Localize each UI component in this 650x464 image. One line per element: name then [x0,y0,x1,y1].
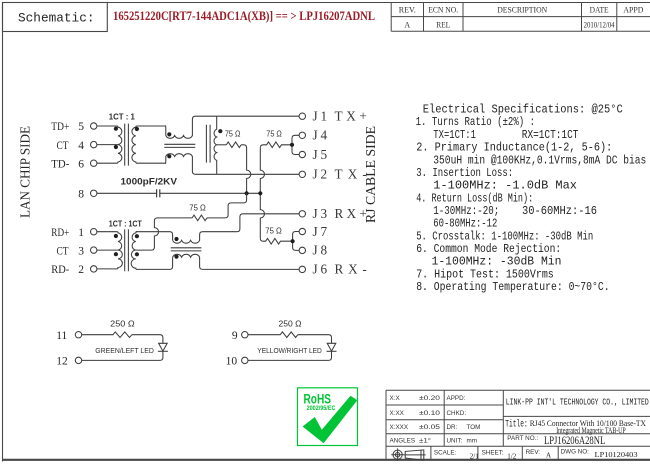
polarity dot T3 primary bottom [114,252,118,256]
svg-text:5: 5 [78,121,84,133]
svg-text:TX-: TX- [335,167,367,182]
svg-text:ANGLES: ANGLES [390,438,416,445]
svg-text:TD-: TD- [51,158,69,170]
svg-text:J3: J3 [313,206,328,221]
wire choke to J3 riser [203,214,300,232]
wire pin3 center tap [97,249,118,251]
wire T3 center tap to 75ohm with hop [136,218,192,250]
svg-text:DESCRIPTION: DESCRIPTION [497,6,547,15]
svg-text:2: 2 [78,264,84,276]
pin 1 circle [91,229,97,235]
svg-text:9: 9 [232,330,238,342]
pin 11 circle [75,332,81,338]
svg-text:APPD:: APPD: [447,395,466,402]
svg-text:75 Ω: 75 Ω [266,129,282,138]
svg-text:X:XX: X:XX [390,410,405,417]
svg-text:J4: J4 [313,128,328,143]
pin 2 circle [91,266,97,272]
wire J4/J5 vertical with hops [260,148,264,238]
wire to LED1 [132,335,163,344]
common mode choke CM2 top winding [173,232,203,243]
svg-text:CT: CT [57,245,69,257]
svg-text:DATE: DATE [590,6,609,15]
polarity dot T1 primary top [114,127,118,131]
svg-text:ECN NO.: ECN NO. [428,6,458,15]
pin 8 circle [91,190,97,196]
pin 4 circle [91,141,97,147]
svg-text:Schematic:: Schematic: [18,11,95,26]
svg-text:250 Ω: 250 Ω [279,319,302,329]
wire J2 bottom rail [195,173,299,175]
common mode choke CM1 core [164,144,195,147]
svg-text:12: 12 [56,356,68,368]
wire T3 secondary bottom to choke [137,257,173,269]
pin 6 circle [91,160,97,166]
svg-text:±0.20: ±0.20 [419,395,441,402]
svg-text:75 Ω: 75 Ω [189,204,206,213]
svg-text:1: 1 [78,227,84,239]
pin J1 circle [299,113,305,119]
revision row A [404,20,614,29]
resistor R 250ohm green [82,332,132,338]
svg-text:TX+: TX+ [335,108,367,123]
wire LED1 to pin 12 [82,351,163,360]
junction dot J7J8 [291,239,295,243]
pin 12 circle [75,357,81,363]
capacitor C 1000pF plates [157,189,160,197]
pin 5 circle [91,123,97,129]
svg-text:10: 10 [226,356,238,368]
pin 3 circle [91,247,97,253]
svg-text:Integrated Magnetic TAB-UP: Integrated Magnetic TAB-UP [556,426,626,435]
wire T2 center tap [217,144,227,146]
transformer T3 secondary winding [131,232,137,270]
svg-text:A: A [404,20,410,29]
common mode choke CM1 bottom winding [165,154,195,175]
transformer T3 primary winding [97,232,122,269]
svg-text:J6: J6 [313,262,328,277]
J7/J8 bracket [293,232,300,251]
svg-text:11: 11 [56,330,67,342]
svg-text:UNIT:: UNIT: [447,438,463,445]
wire LED2 to pin 10 [248,351,331,360]
svg-text:75 Ω: 75 Ω [265,227,282,236]
svg-text:±0.10: ±0.10 [419,410,441,417]
svg-text:Title:: Title: [505,419,527,431]
svg-text:±1°: ±1° [419,437,432,445]
svg-text:4: 4 [78,140,84,152]
polarity dot CM2 bottom [174,255,178,259]
polarity dot T3 secondary bottom [135,252,139,256]
resistor R 250ohm yellow [248,332,298,338]
polarity dot T3 primary top [114,234,118,238]
svg-text:REV:: REV: [526,449,541,456]
svg-text:1/2: 1/2 [507,452,516,460]
polarity dot CM2 top [174,237,178,241]
svg-text:1CT : 1: 1CT : 1 [109,112,136,121]
svg-text:J1: J1 [313,108,328,123]
revision table [391,3,650,32]
junction dot B [258,191,262,195]
pin J4 circle [299,132,305,138]
svg-text:3: 3 [78,245,84,257]
LED D1 cathode bar [158,350,168,352]
autotransformer T2 winding [214,116,217,174]
LED D1 triangle [159,343,168,351]
J4/J5 bracket [292,135,299,154]
junction dot J4J5 [290,143,294,147]
wire T3 secondary top to choke [136,232,173,241]
pin J3 circle [299,211,305,217]
svg-text:1000pF/2KV: 1000pF/2KV [121,177,178,188]
svg-text:30-60MHz:-16: 30-60MHz:-16 [522,204,597,218]
svg-text:DWG NO:: DWG NO: [561,449,590,456]
transformer T1 secondary winding [132,126,166,163]
polarity dot T1 primary bottom [114,145,118,149]
common mode choke CM1 top winding [165,116,195,138]
resistor R 75ohm J7/J8 lead + zigzag [260,238,292,244]
resistor R 75ohm T2 center-tap [226,142,241,148]
svg-text:mm: mm [467,438,478,445]
polarity dot T1 secondary [135,127,139,131]
svg-text:LAN CHIP SIDE: LAN CHIP SIDE [18,126,33,218]
pin J8 circle [299,247,305,253]
svg-text:LPJ16206A28NL: LPJ16206A28NL [544,435,605,447]
svg-text:X:X: X:X [390,395,401,402]
svg-text:J7: J7 [313,224,328,239]
wire to LED2 [298,335,332,344]
transformer T1 primary winding [97,126,122,163]
autotransformer T2 core [206,125,210,163]
svg-text:2/1: 2/1 [470,452,479,460]
svg-text:REL: REL [436,20,450,29]
projection symbol [391,448,425,461]
svg-text:J8: J8 [313,243,328,258]
svg-text:RD-: RD- [51,264,69,276]
svg-text:165251220C[RT7-144ADC1A(XB)] =: 165251220C[RT7-144ADC1A(XB)] == > LPJ162… [113,9,375,23]
polarity dot T2 [218,129,222,133]
capacitor rail to junction [160,192,260,194]
pin 9 circle [242,332,248,338]
svg-text:8. Operating Temperature: 0~70: 8. Operating Temperature: 0~70°C. [416,280,609,294]
transformer T1 core [125,124,129,166]
pin J7 circle [299,228,305,234]
capacitor wire pin8 [97,192,157,194]
svg-text:LP10120403: LP10120403 [595,450,638,459]
wire pin4 center tap [97,144,118,146]
wire 75ohm to cap rail with hop over J2 [241,145,251,194]
svg-text:250 Ω: 250 Ω [110,319,135,329]
svg-text:RX+: RX+ [335,206,367,221]
pin J5 circle [299,151,305,157]
svg-text:PART NO.:: PART NO.: [507,435,538,442]
svg-text:DR:: DR: [447,424,458,431]
svg-text:8: 8 [78,189,84,201]
svg-text:TD+: TD+ [51,121,69,133]
svg-text:SCALE:: SCALE: [434,449,457,456]
revision table header text [399,6,644,15]
common mode choke CM2 core [171,248,202,251]
svg-text:J5: J5 [313,147,328,162]
svg-text:±0.05: ±0.05 [419,424,441,431]
LED D2 triangle [327,343,336,351]
svg-text:X:XXX: X:XXX [390,424,409,431]
wire J6 line [203,268,300,270]
svg-text:REV.: REV. [399,6,416,15]
svg-text:RX-: RX- [335,262,367,277]
wire J1 top rail [195,115,299,117]
common mode choke CM2 bottom winding [173,254,203,269]
resistor R 75ohm RX center-tap [192,215,207,221]
polarity dot CM1 top [167,132,171,136]
svg-text:YELLOW/RIGHT LED: YELLOW/RIGHT LED [257,346,322,355]
svg-text:1CT : 1CT: 1CT : 1CT [109,220,142,229]
svg-text:6: 6 [78,158,84,170]
polarity dot CM1 bottom [167,154,171,158]
svg-text:GREEN/LEFT LED: GREEN/LEFT LED [95,346,154,355]
svg-text:A: A [546,452,551,460]
svg-text:APPD: APPD [623,6,643,15]
svg-text:LINK-PP INT'L TECHNOLOGY CO.,: LINK-PP INT'L TECHNOLOGY CO., LIMITED [506,398,649,408]
pin 10 circle [242,357,248,363]
svg-text:CT: CT [57,140,69,152]
pin J2 circle [299,171,305,177]
resistor R 75ohm J4/J5 lead + zigzag [260,142,292,148]
LED D2 cathode bar [327,350,337,352]
svg-text:SHEET:: SHEET: [482,449,504,456]
wire RX ct resistor to cap rail [207,193,247,218]
RoHS checkmark [303,396,358,444]
svg-text:CHKD:: CHKD: [447,410,467,417]
schematic title box [3,3,108,32]
transformer T3 core [125,229,129,271]
svg-text:RD+: RD+ [51,227,69,239]
svg-text:2010/12/04: 2010/12/04 [584,20,615,29]
svg-text:75 Ω: 75 Ω [225,129,241,138]
svg-text:TOM: TOM [467,424,481,431]
junction dot A [245,191,249,195]
polarity dot T3 secondary top [135,234,139,238]
pin J6 circle [299,266,305,272]
svg-text:J2: J2 [313,167,328,182]
svg-text:2002/95/EC: 2002/95/EC [307,405,336,412]
